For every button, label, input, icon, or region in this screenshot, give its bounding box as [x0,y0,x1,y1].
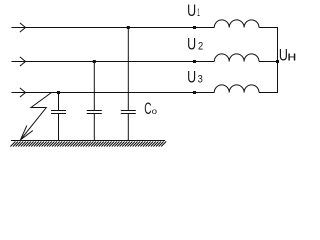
wire capacitor C0-1 lower lead [58,114,60,142]
junction dot C0-1 to line 3 [57,91,60,94]
junction dot C0-3 to line 1 [127,26,130,29]
capacitor C0-3 plates [121,111,136,114]
capacitor C0-1 plates [51,111,66,114]
wire capacitor C0-1 upper lead [58,93,60,111]
arrow incoming surge phase 2 [20,57,26,66]
node U3 dot [193,91,196,94]
svg-text:U: U [187,36,196,54]
svg-text:1: 1 [197,7,200,19]
wire phase line 2 [12,61,215,63]
lightning surge arrowhead [21,126,33,140]
svg-text:U: U [187,68,196,86]
inductor L3 [214,85,259,93]
wire inductor L3 to bus [259,92,278,94]
junction dot bus to line 2 [276,60,279,63]
wire inductor L2 to bus [259,61,278,63]
inductor L1 [214,20,259,28]
svg-text:C: C [144,100,151,118]
svg-text:н: н [287,49,296,64]
svg-text:2: 2 [198,41,203,53]
ground line [11,140,165,142]
junction dot C0-2 to line 2 [93,60,96,63]
wire inductor L1 to bus [259,27,278,29]
wire phase line 1 [12,27,215,29]
wire capacitor C0-2 lower lead [93,114,95,142]
svg-text:3: 3 [198,73,203,85]
wire capacitor C0-3 lower lead [127,114,129,142]
ground hatching [10,142,166,147]
arrow incoming surge phase 3 [20,88,26,97]
arrow incoming surge phase 1 [20,23,26,32]
capacitor C0-2 plates [87,111,102,114]
svg-text:U: U [187,2,196,20]
inductor L2 [214,54,259,62]
svg-text:o: o [152,106,158,116]
node U1 dot [193,26,196,29]
wire capacitor C0-3 upper lead [127,28,129,111]
wire output bus Uн [277,27,279,93]
wire phase line 3 [12,92,215,94]
wire capacitor C0-2 upper lead [93,62,95,111]
node U2 dot [193,60,196,63]
lightning surge arrow [21,93,52,140]
